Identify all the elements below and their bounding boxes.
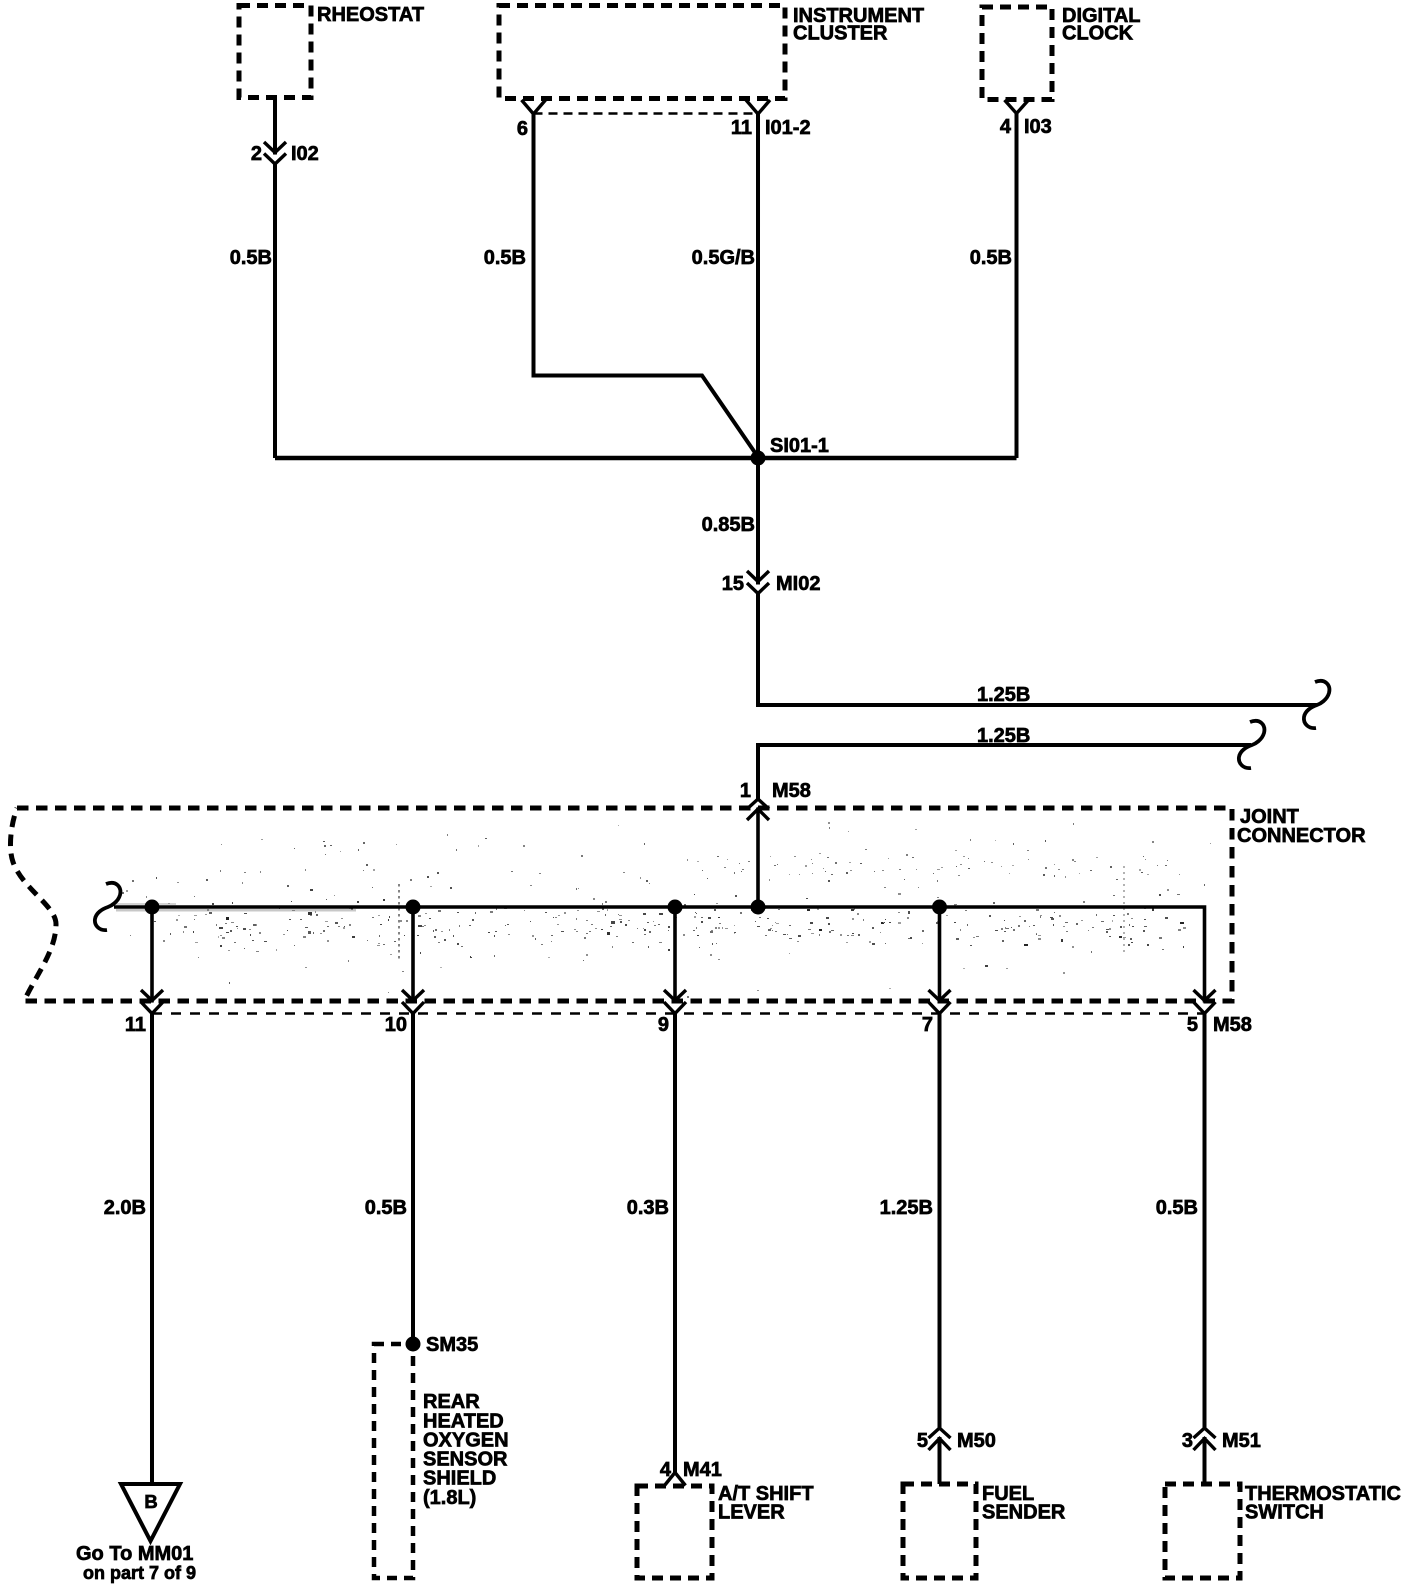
label A/T SHIFT LEVER — [718, 1483, 814, 1524]
svg-text:6: 6 — [517, 118, 528, 140]
wire bus line — [114, 907, 1205, 1003]
ground triangle B — [121, 1484, 180, 1541]
wire MI02 down and right (off page) — [758, 594, 1317, 706]
connector M58 pin 7 (double chevron down) — [928, 990, 950, 1014]
connector M58 pin 1 (double chevron up) — [747, 799, 769, 820]
connector M58 pin 11 (double chevron down) — [141, 990, 163, 1014]
svg-text:2.0B: 2.0B — [104, 1197, 146, 1219]
svg-text:10: 10 — [385, 1014, 407, 1036]
svg-text:CLUSTER: CLUSTER — [793, 23, 888, 45]
off-page squiggle (upper 1.25B wire) — [1304, 681, 1329, 728]
wire col 5 down to M51 — [1202, 1014, 1206, 1429]
svg-text:9: 9 — [658, 1014, 669, 1036]
label Go To MM01 — [76, 1543, 196, 1583]
connector M58 pin 9 (double chevron down) — [664, 990, 686, 1014]
wire bus drop col 10 — [411, 907, 415, 1003]
connector M50 pin 5 (double chevron up) — [928, 1428, 950, 1450]
svg-text:0.85B: 0.85B — [702, 514, 755, 536]
svg-text:on part 7 of 9: on part 7 of 9 — [83, 1563, 196, 1583]
svg-text:1.25B: 1.25B — [880, 1197, 933, 1219]
svg-text:MI02: MI02 — [776, 573, 820, 595]
label DIGITAL CLOCK — [1062, 5, 1141, 45]
svg-text:SI01-1: SI01-1 — [770, 435, 829, 457]
svg-text:0.3B: 0.3B — [627, 1197, 669, 1219]
wire col 11 down to ground triangle — [150, 1013, 154, 1484]
wire bus drop col 11 — [150, 907, 154, 1003]
svg-text:M41: M41 — [683, 1459, 722, 1481]
svg-text:15: 15 — [722, 573, 744, 595]
svg-text:0.5B: 0.5B — [365, 1197, 407, 1219]
connector strip M58 (thin dashed) — [152, 1012, 1205, 1014]
node bus junction (pin 7 col) — [932, 900, 947, 915]
svg-text:M58: M58 — [1213, 1014, 1252, 1036]
svg-text:1.25B: 1.25B — [977, 684, 1030, 706]
wire digital clock down to main line — [1015, 114, 1019, 459]
node SM35 splice dot — [405, 1336, 420, 1351]
component DIGITAL CLOCK (dashed box) — [982, 7, 1052, 100]
connector M51 pin 3 (double chevron up) — [1193, 1428, 1215, 1450]
svg-text:Go To MM01: Go To MM01 — [76, 1543, 193, 1565]
svg-text:0.5B: 0.5B — [484, 247, 526, 269]
svg-text:CONNECTOR: CONNECTOR — [1237, 825, 1366, 847]
svg-text:2: 2 — [251, 143, 262, 165]
svg-text:0.5B: 0.5B — [970, 247, 1012, 269]
svg-text:B: B — [144, 1491, 157, 1512]
wire col 9 down to M41 — [673, 1013, 677, 1473]
wire M51 to thermostatic switch — [1202, 1437, 1206, 1484]
wire rheostat to main line — [273, 164, 277, 458]
svg-text:SM35: SM35 — [426, 1334, 478, 1356]
connector M41 pin 4 (chevron on box) — [664, 1472, 685, 1485]
svg-text:0.5B: 0.5B — [230, 247, 272, 269]
wire bus drop col 9 — [673, 907, 677, 1003]
svg-text:5: 5 — [917, 1430, 928, 1452]
node bus junction (pin 9 col) — [667, 899, 682, 914]
wire M50 to fuel sender — [937, 1437, 941, 1484]
component JOINT CONNECTOR (dashed box with wavy left edge) — [10, 808, 1232, 1001]
svg-text:7: 7 — [922, 1014, 933, 1036]
svg-text:3: 3 — [1182, 1430, 1193, 1452]
off-page squiggle (lower 1.25B wire) — [1239, 721, 1264, 768]
component FUEL SENDER (dashed box) — [903, 1484, 976, 1578]
connector M58 pin 10 (double chevron down) — [402, 990, 424, 1014]
svg-text:(1.8L): (1.8L) — [423, 1487, 476, 1509]
pin 11 connector V on instrument cluster — [746, 100, 770, 114]
node SI01-1 junction dot — [751, 451, 766, 466]
connector I02 pin 2 (inline double chevron down) — [264, 142, 286, 164]
svg-text:5: 5 — [1187, 1014, 1198, 1036]
label REAR HEATED OXYGEN SENSOR SHIELD (1.8L) — [423, 1391, 509, 1509]
pin 6 connector V on instrument cluster — [522, 100, 546, 114]
svg-text:1.25B: 1.25B — [977, 725, 1030, 747]
pin 4 connector V on digital clock — [1005, 100, 1029, 114]
svg-text:I03: I03 — [1024, 116, 1052, 138]
wire bus drop col 7 — [938, 907, 942, 1003]
svg-text:CLOCK: CLOCK — [1062, 23, 1134, 45]
svg-text:M51: M51 — [1222, 1430, 1261, 1452]
component INSTRUMENT CLUSTER (dashed box) — [499, 5, 785, 98]
wire from off page to M58 pin 1 — [758, 745, 1251, 799]
label INSTRUMENT CLUSTER — [793, 5, 924, 45]
wire col 7 down to M50 — [937, 1014, 941, 1428]
label FUEL SENDER — [982, 1483, 1066, 1524]
svg-text:4: 4 — [1000, 116, 1012, 138]
svg-text:RHEOSTAT: RHEOSTAT — [317, 4, 424, 26]
wire pin 6 down, across and diagonal to SI01-1 — [534, 114, 759, 457]
wire col 10 down to SM35 — [411, 1013, 415, 1344]
svg-text:0.5G/B: 0.5G/B — [692, 247, 755, 269]
svg-text:M50: M50 — [957, 1430, 996, 1452]
component REAR HEATED OXYGEN SENSOR SHIELD (dashed box) — [374, 1344, 413, 1578]
label JOINT CONNECTOR — [1237, 806, 1366, 847]
wire M58 pin1 into joint connector — [756, 808, 760, 908]
svg-text:11: 11 — [125, 1014, 146, 1036]
wire rheostat pin 2 drop — [273, 97, 277, 154]
wire pin 11 down to SI01-1 — [756, 114, 760, 458]
svg-text:M58: M58 — [772, 780, 811, 802]
node bus junction (pin 10 col) — [405, 899, 420, 914]
svg-text:1: 1 — [740, 780, 751, 802]
svg-text:LEVER: LEVER — [718, 1502, 785, 1524]
wire main horizontal line — [275, 456, 1017, 461]
svg-text:11: 11 — [731, 117, 752, 139]
svg-text:4: 4 — [660, 1459, 672, 1481]
svg-text:SWITCH: SWITCH — [1245, 1502, 1324, 1524]
connector MI02 pin 15 (inline double chevron down) — [747, 571, 769, 594]
component RHEOSTAT (dashed box) — [239, 5, 311, 97]
scan noise (decorative) — [116, 822, 1211, 998]
connector M58 pin 5 (double chevron down) — [1193, 990, 1215, 1014]
svg-text:I01-2: I01-2 — [765, 117, 811, 139]
node bus junction (pin 1) — [750, 900, 765, 915]
svg-text:0.5B: 0.5B — [1156, 1197, 1198, 1219]
svg-text:SENDER: SENDER — [982, 1502, 1066, 1524]
connector strip I01-2 (thin dashed) — [534, 112, 759, 114]
component THERMOSTATIC SWITCH (dashed box) — [1165, 1484, 1240, 1578]
label THERMOSTATIC SWITCH — [1245, 1483, 1401, 1524]
wire SI01-1 down to MI02 — [756, 458, 760, 585]
bus squiggle (left end) — [95, 883, 120, 930]
svg-text:I02: I02 — [291, 143, 319, 165]
node bus junction (pin 11 col) — [144, 899, 159, 914]
component A/T SHIFT LEVER (dashed box) — [637, 1486, 712, 1578]
